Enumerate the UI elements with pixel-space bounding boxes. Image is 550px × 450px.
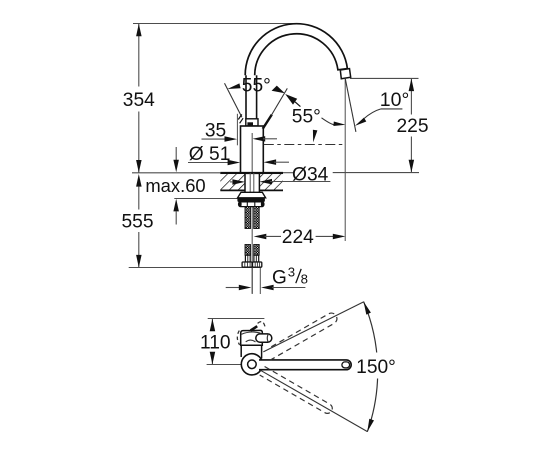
leader curve 10 deg	[364, 109, 381, 119]
underline of 10 deg	[381, 108, 403, 110]
G38 fitting nut right	[253, 262, 262, 267]
dim O51 right tail	[274, 161, 289, 163]
arrow down at counter top	[173, 160, 179, 173]
wire: 110 top extension line	[208, 318, 265, 320]
G38 extension line right	[259, 268, 261, 294]
arrow left at shank right edge	[259, 179, 272, 185]
nut end cap left	[239, 202, 242, 207]
lever pivot block	[247, 122, 253, 126]
fitting facet line	[247, 262, 249, 267]
nut facet line right	[254, 202, 256, 206]
arrow at slanted line	[355, 118, 366, 126]
swing leg lower	[261, 370, 368, 431]
cartridge cap plan outline	[241, 330, 263, 345]
dashed spout position upper	[270, 313, 337, 360]
dim line 354 upper part	[138, 24, 140, 87]
counter top edge	[220, 172, 283, 174]
G38 extension line left	[251, 268, 253, 294]
lever axis thin line	[271, 88, 287, 115]
arrow down 555	[136, 255, 142, 268]
dim line 110 upper part	[211, 319, 213, 332]
dim 35 right tail	[263, 138, 277, 140]
nut end cap right	[261, 202, 264, 207]
arrow down 225	[409, 160, 415, 173]
arrow right at body left edge	[228, 160, 241, 165]
aerator slot plan	[342, 362, 350, 368]
collar below tube	[246, 119, 258, 126]
bowtie arrow lower half	[285, 94, 297, 105]
fitting facet line	[249, 262, 251, 267]
faucet body	[241, 126, 264, 173]
shank left edge	[244, 173, 246, 192]
wire: counter level stub	[283, 172, 293, 174]
counter bottom edge left	[220, 189, 245, 191]
wire: 110 bottom extension line	[207, 364, 242, 366]
svg-text:354: 354	[123, 90, 155, 111]
supply tube line right in shank	[253, 173, 255, 192]
vertical extension line from spout tip	[344, 78, 346, 241]
svg-text:225: 225	[396, 116, 428, 137]
fitting facet line	[244, 262, 246, 267]
dash-dot lever reference line	[264, 144, 345, 146]
fitting facet line	[254, 262, 256, 267]
dim O34 line under label	[270, 181, 330, 183]
svg-text:35: 35	[205, 121, 226, 142]
svg-text:10°: 10°	[380, 89, 410, 111]
svg-text:Ø34: Ø34	[292, 164, 329, 185]
supply hose left lower	[245, 245, 251, 256]
arrow up at max60 line	[173, 199, 179, 212]
arrow at arc top	[364, 302, 371, 315]
collar inner line right	[255, 255, 257, 262]
leader line left of 55	[225, 83, 242, 117]
slanted 10 deg line	[345, 78, 356, 132]
max60 top arrow tail	[175, 147, 177, 160]
lever rotated thick stroke	[251, 326, 258, 330]
shank right edge	[258, 173, 260, 192]
spout bar plan fill	[259, 360, 351, 370]
supply tube line left in shank	[249, 173, 251, 192]
dim line 354 lower part	[138, 112, 140, 173]
hose end collar left	[245, 255, 250, 262]
G38 right tail	[272, 287, 305, 289]
arrow right at ext line	[225, 136, 238, 142]
svg-text:3: 3	[288, 265, 295, 280]
svg-text:555: 555	[121, 212, 153, 233]
arrow left G38	[261, 285, 274, 290]
dim 35 tail under text	[202, 138, 227, 140]
dim 224 left segment	[265, 235, 282, 237]
fitting facet line	[256, 262, 258, 267]
counter bottom edge right	[259, 189, 283, 191]
G38 left tail	[226, 287, 240, 289]
arrow right G38	[239, 285, 252, 290]
wire: counter level extension left	[132, 172, 220, 174]
counter hatch right block	[259, 174, 283, 189]
arrow at left leader line	[227, 83, 240, 89]
neck plan right edge	[261, 345, 263, 358]
nut facet line left	[246, 202, 248, 206]
wire: hose end level line	[129, 267, 262, 269]
center line in body	[251, 133, 253, 173]
dashed spout position lower	[260, 367, 334, 416]
svg-text:150°: 150°	[356, 357, 396, 378]
wire: top extension line at spout apex	[133, 23, 297, 25]
tick mark 2 on ext line	[240, 118, 244, 123]
arrow up 354	[136, 24, 142, 37]
lever end inner line	[266, 335, 269, 342]
arrow left 224	[254, 234, 267, 240]
counter hatch left block	[220, 174, 245, 189]
arrow right at vertical ext line	[333, 122, 345, 127]
max60 bottom arrow tail	[175, 212, 177, 225]
lever plan	[256, 334, 272, 342]
svg-text:55°: 55°	[242, 76, 271, 97]
arrow down 110	[210, 352, 216, 365]
arrow right at shank left edge	[232, 179, 245, 185]
center line below counter	[251, 192, 253, 293]
pivot inner circle	[248, 360, 257, 369]
dim line 225 upper part	[410, 78, 412, 114]
spout arc annulus	[245, 24, 347, 76]
dim 224 right segment	[316, 235, 333, 237]
tick mark 1 on ext line	[238, 114, 242, 119]
arrow right 224	[333, 234, 346, 240]
arrow up 225	[409, 79, 415, 92]
neck tube right edge	[256, 75, 258, 118]
dim O51 tail under text	[188, 162, 229, 164]
supply hose right lower	[254, 245, 260, 256]
dashed swing arc upper	[258, 322, 266, 328]
leader curve to vertical line	[322, 118, 335, 125]
swivel base circle	[241, 354, 262, 375]
dim line 555 upper part	[138, 187, 140, 210]
wire: counter level extension right	[333, 172, 419, 174]
bowtie tail tick	[295, 102, 300, 107]
swing leg upper	[263, 302, 364, 352]
collar inner line left	[247, 255, 249, 262]
fitting facet line	[259, 262, 261, 267]
cap inner curve	[246, 340, 256, 342]
supply hose left upper	[245, 207, 251, 229]
white gap for 150 label	[358, 353, 397, 379]
svg-text:max.60: max.60	[145, 175, 205, 196]
svg-text:110: 110	[200, 333, 231, 354]
G38 fraction slash	[296, 269, 301, 283]
arrow left at body right edge	[264, 159, 277, 165]
bowtie arrow upper half	[272, 86, 285, 94]
arrow at arc bottom	[367, 419, 374, 432]
dim line 110 lower part	[211, 352, 213, 364]
dim line 225 lower part	[410, 137, 412, 173]
lever thick segment	[263, 115, 272, 129]
cap dome curve	[242, 332, 261, 334]
mounting nut	[239, 202, 264, 207]
aerator tip piece	[340, 69, 350, 79]
arc 150 deg	[364, 302, 378, 432]
dim line 555 lower part	[138, 232, 140, 268]
max60 lower line	[174, 198, 238, 200]
extension line x=237	[236, 114, 238, 146]
neck plan left edge	[240, 345, 242, 357]
dim O34 left tail	[230, 181, 233, 183]
stabilizer plate	[238, 192, 266, 198]
spout bar plan outline	[259, 360, 351, 370]
hose end collar right	[254, 255, 259, 262]
mounting flange	[237, 198, 265, 202]
supply hose right upper	[254, 207, 260, 229]
arrow up 110	[210, 319, 216, 332]
svg-text:224: 224	[282, 227, 314, 248]
arrow down 354	[136, 160, 142, 173]
svg-text:8: 8	[301, 271, 308, 286]
dashed swing arc left	[237, 331, 239, 345]
G38 fitting nut left	[242, 262, 252, 267]
arrow left at center line	[253, 136, 266, 142]
svg-text:G: G	[272, 267, 287, 288]
svg-text:Ø 51: Ø 51	[189, 144, 231, 165]
arrow down to dash-dot line	[313, 130, 318, 143]
neck tube left edge	[245, 75, 247, 118]
arrow up 555	[136, 174, 142, 187]
svg-text:55°: 55°	[292, 106, 321, 127]
wire: outlet level extension line	[350, 77, 419, 79]
